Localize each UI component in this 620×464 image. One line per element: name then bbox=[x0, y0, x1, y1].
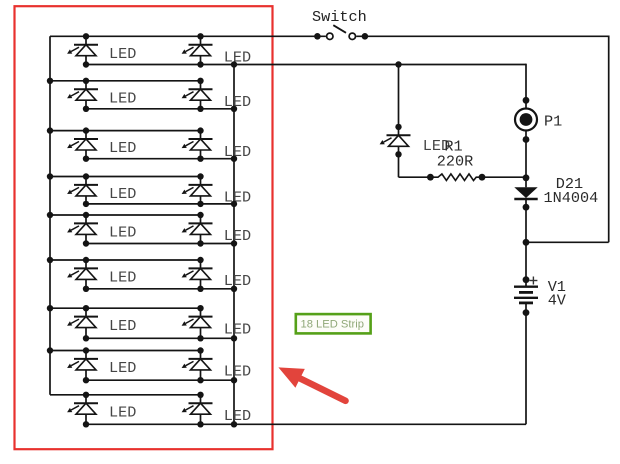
junction feed wire / indicator LED branch bbox=[395, 61, 401, 67]
LED D5 bbox=[67, 127, 98, 161]
LED D2 bbox=[182, 33, 213, 68]
wire row 2 bottom bbox=[86, 108, 234, 110]
svg-text:220R: 220R bbox=[437, 153, 473, 171]
wire P1 to D21 segment bbox=[525, 131, 527, 187]
junction row 4 bottom at right bus bbox=[231, 201, 237, 207]
svg-text:LED: LED bbox=[109, 317, 136, 335]
wire row 6 top bbox=[50, 259, 201, 261]
wire resistor to main vertical bbox=[482, 176, 526, 178]
wire D21 to battery segment bbox=[525, 200, 527, 287]
junction row 6 bottom at right bus bbox=[231, 286, 237, 292]
junction resistor / main vertical bbox=[523, 174, 530, 181]
wire battery to bottom return segment bbox=[525, 303, 527, 424]
svg-text:LED: LED bbox=[224, 227, 251, 245]
svg-text:LED: LED bbox=[109, 139, 136, 157]
lamp P1 bbox=[515, 97, 537, 143]
LED D7 bbox=[67, 173, 98, 207]
svg-text:LED: LED bbox=[224, 407, 251, 425]
junction row 7 top at left bus bbox=[47, 305, 53, 311]
svg-text:LED: LED bbox=[224, 143, 251, 161]
svg-text:LED: LED bbox=[109, 403, 136, 421]
svg-text:LED: LED bbox=[109, 185, 136, 203]
highlight box around 18 LED strip bbox=[15, 6, 273, 449]
junction row 8 top at left bus bbox=[47, 347, 53, 353]
LED D14 bbox=[182, 305, 213, 341]
LED D17 bbox=[67, 392, 98, 428]
svg-text:LED: LED bbox=[224, 189, 251, 207]
LED D12 bbox=[182, 257, 213, 292]
diode D21 bbox=[514, 187, 537, 210]
LED D13 bbox=[67, 305, 98, 341]
junction row 2 top at left bus bbox=[47, 78, 53, 84]
wire right edge to main vertical junction bbox=[526, 241, 609, 243]
svg-text:18 LED Strip: 18 LED Strip bbox=[301, 318, 364, 330]
svg-text:Switch: Switch bbox=[312, 8, 367, 26]
wire row 7 top bbox=[50, 307, 201, 309]
junction row 5 bottom at right bus bbox=[231, 240, 237, 246]
svg-text:LED: LED bbox=[224, 363, 251, 381]
junction row 9 bottom at right bus bbox=[231, 421, 237, 427]
switch S1 bbox=[314, 25, 368, 39]
wire row 2 top bbox=[50, 80, 201, 82]
wire right bus connecting LED row bottoms bbox=[233, 65, 235, 425]
LED D19 indicator bbox=[380, 124, 411, 158]
wire indicator LED to resistor bbox=[399, 154, 431, 177]
svg-text:LED: LED bbox=[109, 224, 136, 242]
callout box 18 LED Strip bbox=[296, 314, 371, 333]
LED D11 bbox=[67, 257, 98, 292]
wire row 4 bottom bbox=[86, 203, 234, 205]
wire right edge vertical bbox=[608, 35, 610, 242]
svg-text:4V: 4V bbox=[548, 291, 567, 309]
wire LED strip feed from row 1 bottom to main vertical bbox=[86, 64, 526, 66]
wire row 8 top bbox=[50, 350, 201, 352]
LED D9 bbox=[67, 212, 98, 247]
svg-text:LED: LED bbox=[224, 93, 251, 111]
LED D1 bbox=[67, 33, 98, 68]
LED D18 bbox=[182, 392, 213, 428]
svg-text:LED: LED bbox=[224, 49, 251, 67]
LED D4 bbox=[182, 78, 213, 112]
svg-text:LED: LED bbox=[109, 269, 136, 287]
LED D8 bbox=[182, 173, 213, 207]
wire main vertical top segment to P1 bbox=[525, 64, 527, 108]
junction row 5 top at left bus bbox=[47, 212, 53, 218]
junction row 8 bottom at right bus bbox=[231, 377, 237, 383]
svg-text:LED: LED bbox=[224, 272, 251, 290]
battery plus sign bbox=[529, 277, 537, 285]
LED D16 bbox=[182, 347, 213, 383]
arrow pointing to LED strip bbox=[278, 367, 345, 400]
junction row 7 bottom at right bus bbox=[231, 335, 237, 341]
junction main vertical / right edge bbox=[523, 239, 530, 246]
wire row 7 bottom bbox=[86, 337, 234, 339]
junction row 6 top at left bus bbox=[47, 257, 53, 263]
junction row 1 bottom at right bus bbox=[231, 61, 237, 67]
wire row 3 bottom bbox=[86, 158, 234, 160]
junction row 3 top at left bus bbox=[47, 127, 53, 133]
wire bottom return from battery to LED strip bbox=[86, 423, 526, 425]
svg-text:LED: LED bbox=[109, 45, 136, 63]
LED D6 bbox=[182, 127, 213, 161]
wire row 4 top bbox=[50, 176, 201, 178]
wire row 9 top bbox=[50, 394, 201, 396]
svg-text:P1: P1 bbox=[544, 112, 562, 130]
wire row 3 top bbox=[50, 130, 201, 132]
wire left bus connecting LED row tops bbox=[49, 36, 51, 395]
wire row 5 bottom bbox=[86, 243, 234, 245]
LED D10 bbox=[182, 212, 213, 247]
svg-text:LED: LED bbox=[109, 89, 136, 107]
wire row 6 bottom bbox=[86, 288, 234, 290]
junction row 3 bottom at right bus bbox=[231, 156, 237, 162]
LED D3 bbox=[67, 78, 98, 112]
junction row 4 top at left bus bbox=[47, 173, 53, 179]
svg-text:1N4004: 1N4004 bbox=[544, 189, 599, 207]
svg-text:LED: LED bbox=[109, 359, 136, 377]
wire top bus from LED strip to switch and right edge bbox=[50, 35, 609, 37]
junction row 2 bottom at right bus bbox=[231, 106, 237, 112]
wire feed to indicator LED bbox=[398, 65, 400, 127]
LED D15 bbox=[67, 347, 98, 383]
wire row 5 top bbox=[50, 214, 201, 216]
wire row 8 bottom bbox=[86, 379, 234, 381]
resistor R1 bbox=[427, 174, 485, 181]
battery V1 bbox=[514, 276, 538, 316]
svg-text:LED: LED bbox=[224, 320, 251, 338]
